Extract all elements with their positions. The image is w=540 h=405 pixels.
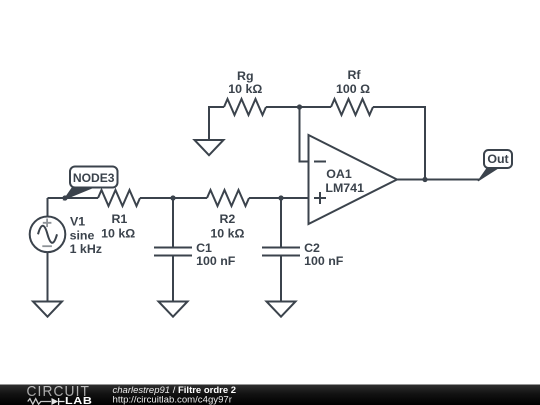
op-amp minus pin	[314, 161, 326, 163]
node R1-C1 dot	[170, 195, 175, 200]
svg-text:V1: V1	[70, 214, 85, 228]
svg-text:NODE3: NODE3	[73, 171, 115, 185]
footer bar	[0, 385, 540, 405]
resistor Rg	[224, 99, 266, 115]
flag NODE3 tail	[64, 188, 92, 200]
capacitor C1	[172, 198, 174, 247]
flag Out tail	[478, 168, 499, 182]
op-amp plus pin	[314, 192, 326, 204]
ground V1	[33, 302, 62, 317]
svg-text:R2: R2	[219, 212, 235, 226]
resistor R2	[207, 190, 249, 206]
wire Rg left + ground stem	[209, 107, 224, 140]
svg-text:10 kΩ: 10 kΩ	[228, 82, 262, 96]
resistor Rf	[331, 99, 373, 115]
wire main rail left	[48, 197, 99, 199]
capacitor C2	[280, 198, 282, 247]
voltage source V1	[30, 217, 66, 253]
ground C1	[159, 302, 188, 317]
svg-text:LAB: LAB	[65, 396, 93, 405]
wire Rg to node	[266, 106, 331, 108]
svg-text:C2: C2	[304, 241, 320, 255]
svg-text:10 kΩ: 10 kΩ	[210, 227, 244, 241]
svg-text:http://circuitlab.com/c4gy97r: http://circuitlab.com/c4gy97r	[113, 395, 233, 405]
wire output	[397, 179, 480, 181]
svg-text:1 kHz: 1 kHz	[70, 242, 102, 256]
wire R2 to opamp plus	[249, 197, 309, 199]
node Rg-Rf dot	[297, 104, 302, 109]
node R2-C2 dot	[278, 195, 283, 200]
svg-text:100 Ω: 100 Ω	[336, 82, 370, 96]
flag Out box	[484, 150, 512, 168]
ground C2	[267, 302, 296, 317]
wire V1 top	[47, 198, 49, 217]
V1 plus mark	[43, 219, 52, 228]
resistor R1	[98, 190, 140, 206]
svg-text:Rf: Rf	[347, 68, 361, 82]
ground Rg	[195, 140, 224, 155]
svg-text:sine: sine	[70, 229, 95, 243]
wire inverting input	[300, 107, 309, 162]
wire V1 bottom	[47, 252, 49, 301]
op-amp OA1	[309, 135, 398, 224]
wire R1 to node C1	[140, 197, 207, 199]
svg-text:100 nF: 100 nF	[304, 254, 344, 268]
svg-text:Out: Out	[487, 152, 508, 166]
node NODE3 dot	[62, 195, 67, 200]
flag NODE3 box	[70, 167, 118, 188]
svg-text:LM741: LM741	[325, 181, 364, 195]
svg-text:10 kΩ: 10 kΩ	[101, 227, 135, 241]
svg-text:R1: R1	[111, 212, 127, 226]
logo wire symbol	[28, 399, 51, 405]
svg-text:100 nF: 100 nF	[196, 254, 236, 268]
svg-text:C1: C1	[196, 241, 212, 255]
svg-text:OA1: OA1	[326, 167, 352, 181]
wire Rf right	[373, 107, 425, 180]
V1 minus mark	[42, 245, 52, 247]
node output dot	[422, 177, 427, 182]
